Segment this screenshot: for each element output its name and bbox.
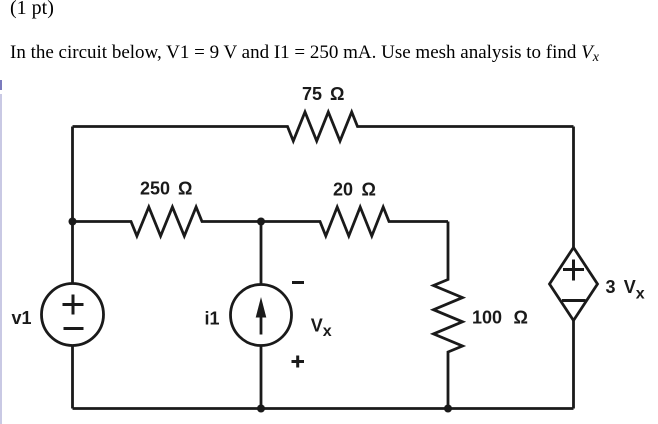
svg-text:100: 100 — [472, 308, 502, 328]
svg-text:20: 20 — [333, 180, 353, 200]
svg-text:V: V — [624, 277, 636, 297]
svg-text:75: 75 — [302, 84, 322, 104]
svg-text:V: V — [311, 316, 323, 336]
svg-text:x: x — [323, 323, 332, 340]
svg-text:i1: i1 — [205, 308, 220, 328]
svg-text:Ω: Ω — [362, 180, 376, 200]
svg-text:Ω: Ω — [178, 179, 192, 199]
svg-text:250: 250 — [140, 179, 170, 199]
svg-text:Ω: Ω — [330, 84, 344, 104]
svg-text:3: 3 — [606, 277, 616, 297]
svg-text:x: x — [636, 285, 645, 302]
svg-text:Ω: Ω — [514, 308, 528, 328]
svg-text:v1: v1 — [12, 308, 32, 328]
